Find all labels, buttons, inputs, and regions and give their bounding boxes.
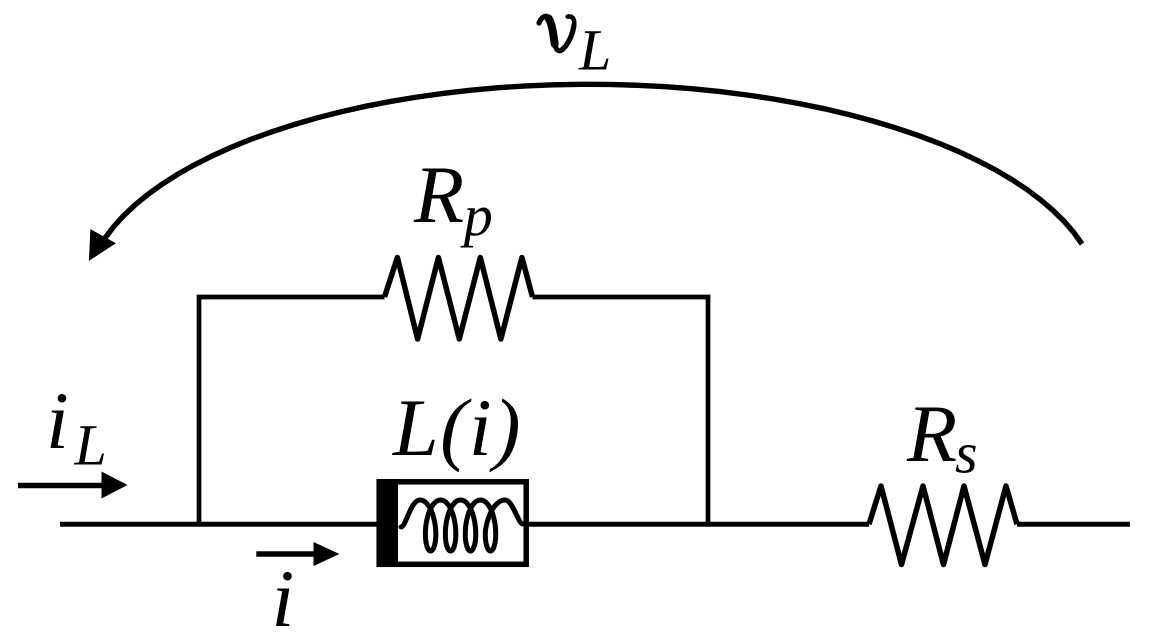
- svg-text:s: s: [955, 421, 978, 486]
- wire: parallel branch top-right run and right vertical: [533, 297, 709, 527]
- resistor Rp zigzag: [385, 258, 533, 340]
- svg-text:L: L: [74, 413, 107, 478]
- arrowhead of vL arc: [90, 231, 114, 259]
- wire: parallel branch left vertical and top-left run: [199, 297, 385, 527]
- wire: main horizontal left segment: [60, 522, 380, 527]
- voltage arc vL: [105, 84, 1082, 244]
- inductor black bar: [377, 479, 399, 567]
- svg-text:L: L: [578, 18, 611, 83]
- current arrow iL shaft: [18, 483, 104, 489]
- svg-text:L(i): L(i): [392, 382, 522, 473]
- svg-text:i: i: [46, 375, 69, 466]
- svg-text:R: R: [906, 388, 957, 479]
- current arrow i shaft: [256, 551, 316, 557]
- wire: main horizontal mid segment: [527, 522, 869, 527]
- label vL: [539, 16, 574, 50]
- svg-text:p: p: [460, 183, 493, 248]
- svg-text:i: i: [272, 553, 295, 643]
- inductor coil: [401, 500, 523, 551]
- resistor Rs zigzag: [869, 486, 1017, 565]
- inductor L(i) box: [379, 482, 526, 565]
- wire: main horizontal right segment: [1017, 522, 1130, 527]
- current arrow i head: [314, 542, 340, 566]
- current arrow iL head: [102, 472, 128, 499]
- svg-text:R: R: [413, 149, 464, 240]
